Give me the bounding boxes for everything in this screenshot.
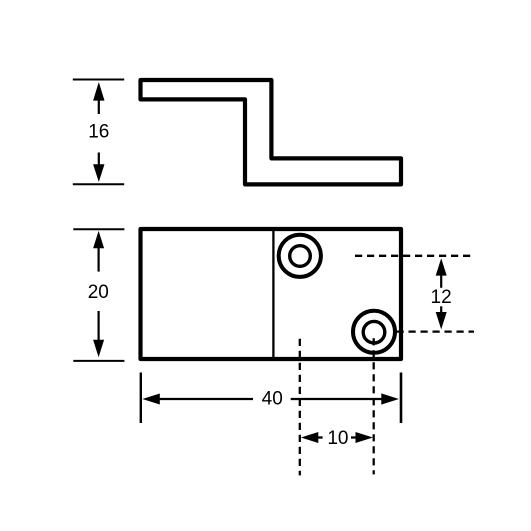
svg-text:20: 20	[88, 282, 109, 303]
fold line	[272, 229, 274, 359]
dim 12 lower arrow	[440, 306, 442, 313]
dim 10 left arrow	[301, 432, 318, 443]
dim 10 right arrow	[356, 432, 373, 443]
hole C1 inner circle	[290, 246, 311, 267]
dim 16 bottom extension line	[73, 183, 124, 185]
dim 20 top extension line	[73, 228, 124, 230]
dim 40 line left part	[158, 398, 253, 400]
svg-text:16: 16	[88, 122, 109, 143]
dim 12 bottom dashed line	[397, 330, 475, 332]
svg-text:10: 10	[327, 428, 348, 449]
dim 12 upper arrow	[436, 258, 447, 275]
dim 12 top dashed line	[355, 255, 475, 257]
dashed centerline through hole C1 column	[299, 339, 301, 476]
hole C2 outer circle	[353, 311, 395, 353]
plan view rectangle	[141, 229, 402, 359]
dim 16 lower arrow	[98, 153, 100, 166]
dim 40 line right part	[291, 398, 384, 400]
dim 40 left arrow	[142, 394, 159, 405]
hole C1 outer circle	[279, 235, 321, 277]
dim 40 left extension line	[140, 373, 142, 424]
svg-text:12: 12	[431, 287, 452, 308]
dim 40 right arrow	[381, 393, 399, 404]
dim 20 bottom extension line	[73, 360, 124, 362]
dim 10 line right stub	[351, 436, 357, 438]
dim 20 lower arrow	[97, 311, 99, 341]
dim 16 upper arrow	[93, 82, 104, 101]
hole C2 inner circle	[363, 321, 385, 343]
dim 20 upper arrow	[93, 231, 104, 248]
Z-profile side view outline	[141, 80, 402, 184]
dim 40 right extension line	[400, 373, 403, 424]
dim 16 top extension line	[73, 79, 124, 81]
svg-text:40: 40	[262, 388, 283, 409]
dim 10 line left stub	[318, 436, 323, 438]
dashed centerline through hole C2 column	[373, 338, 375, 474]
